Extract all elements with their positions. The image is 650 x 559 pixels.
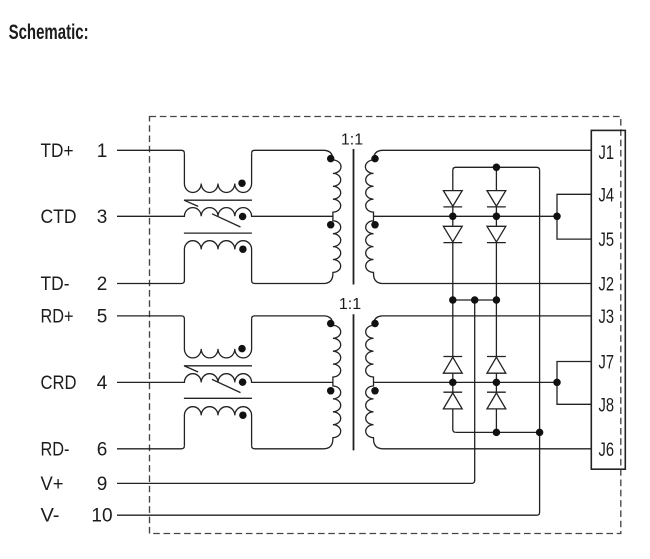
pin label RD- 6 — [41, 439, 108, 460]
wire right chain vertical down to lower bridge — [495, 243, 497, 357]
wire J4-J5 tie — [557, 194, 591, 239]
transformer T2 secondary winding (J3-J6) — [366, 316, 592, 449]
wire mid link — [453, 299, 497, 301]
wire TD+ lead — [117, 150, 184, 153]
wire upper bridge top link — [453, 167, 540, 190]
wire RD- lead — [117, 446, 184, 449]
junction dots mid link — [449, 296, 457, 304]
svg-text:1:1: 1:1 — [339, 296, 361, 313]
choke CM1 arrow strokes — [184, 200, 240, 227]
connector box — [591, 130, 625, 469]
svg-text:3: 3 — [97, 207, 108, 228]
diode D1 — [443, 191, 462, 207]
wire TD- lead — [117, 281, 184, 284]
svg-text:J8: J8 — [599, 395, 615, 416]
diode D8 — [487, 392, 506, 409]
svg-text:J6: J6 — [599, 440, 615, 461]
svg-text:J5: J5 — [599, 230, 615, 251]
svg-text:10: 10 — [91, 506, 112, 527]
junction dot bridge top — [493, 164, 501, 172]
common-mode choke CM2 winding C (RD-) — [184, 407, 251, 446]
wire right chain bottom segment — [495, 409, 497, 433]
pin label TD- 2 — [41, 274, 108, 295]
svg-text:RD-: RD- — [41, 439, 70, 460]
svg-text:1:1: 1:1 — [341, 132, 363, 149]
diode D3 — [487, 191, 506, 207]
svg-text:J3: J3 — [599, 307, 615, 328]
wire T2 secondary center tap — [374, 381, 558, 383]
svg-text:TD+: TD+ — [41, 141, 74, 162]
wire left chain bottom segment — [453, 409, 456, 433]
pin label TD+ 1 — [41, 141, 108, 162]
svg-text:6: 6 — [97, 439, 108, 460]
common-mode choke CM2 winding A (RD+) — [184, 319, 251, 358]
wire T1 secondary center tap — [374, 215, 558, 217]
common-mode choke CM2 winding B (CRD) with wire — [117, 374, 333, 383]
common-mode choke CM1 winding A (TD+) — [184, 153, 251, 192]
wire D7-D8 junction segment — [495, 373, 497, 392]
wire left chain vertical down to lower bridge — [452, 243, 454, 357]
wire J7-J8 tie — [557, 362, 591, 405]
svg-text:2: 2 — [97, 274, 108, 295]
svg-text:J1: J1 — [599, 143, 615, 164]
svg-text:TD-: TD- — [41, 274, 70, 295]
wire D3-D4 junction segment — [495, 207, 497, 226]
svg-text:Schematic:: Schematic: — [9, 21, 89, 44]
transformer T2 polarity dots — [327, 320, 335, 328]
junction dots center tap row T2 — [449, 379, 457, 387]
wire V- rail — [117, 170, 540, 515]
junction dots center tap row T1 — [449, 213, 457, 221]
common-mode choke CM1 winding C (TD-) — [184, 241, 251, 281]
choke CM2 core bars — [184, 366, 252, 399]
svg-text:CTD: CTD — [41, 207, 77, 228]
common-mode choke CM1 winding B (CTD) with wire — [117, 208, 333, 217]
pin label V- 10 — [41, 506, 113, 527]
svg-text:J2: J2 — [599, 275, 615, 296]
svg-text:5: 5 — [97, 306, 108, 327]
transformer T2 primary winding — [252, 316, 341, 449]
diode D7 — [487, 357, 506, 374]
pin label RD+ 5 — [41, 306, 108, 327]
transformer T1 primary winding — [252, 150, 341, 283]
transformer T1 secondary winding (J1-J2) — [365, 150, 591, 283]
svg-text:J4: J4 — [599, 185, 615, 206]
svg-text:9: 9 — [97, 474, 108, 495]
svg-text:RD+: RD+ — [41, 306, 74, 327]
diode D5 — [443, 357, 462, 374]
pin label CTD 3 — [41, 207, 108, 228]
diode D6 — [443, 392, 462, 409]
choke CM2 arrow strokes — [184, 366, 240, 393]
pin label CRD 4 — [41, 373, 108, 394]
dashed module boundary — [150, 117, 621, 534]
choke CM2 polarity dots — [238, 345, 246, 353]
wire D3 top segment — [495, 167, 497, 190]
svg-text:4: 4 — [97, 373, 108, 394]
wire lower bridge bottom link — [456, 431, 540, 433]
wire D5-D6 junction segment — [452, 373, 454, 392]
wire V+ rail — [117, 300, 475, 483]
svg-text:1: 1 — [97, 141, 108, 162]
wire D1-D2 junction segment — [452, 207, 454, 226]
svg-text:CRD: CRD — [41, 373, 77, 394]
svg-text:V-: V- — [41, 506, 60, 527]
pin label V+ 9 — [41, 474, 108, 495]
svg-text:V+: V+ — [41, 474, 64, 495]
transformer T2 core — [353, 314, 355, 450]
choke CM1 polarity dots — [238, 179, 246, 187]
diode D4 — [487, 226, 506, 242]
junction dots bottom link — [493, 429, 501, 437]
transformer T1 polarity dots — [327, 155, 335, 163]
choke CM1 core bars — [184, 200, 252, 233]
wire RD+ lead — [117, 316, 184, 319]
transformer T1 core — [353, 149, 355, 285]
svg-text:J7: J7 — [599, 353, 615, 374]
diode D2 — [443, 226, 462, 242]
